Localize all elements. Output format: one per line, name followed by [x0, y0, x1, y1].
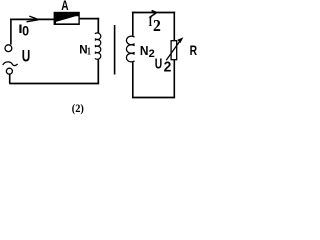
wire right vertical upper (primary side)	[97, 18, 99, 34]
svg-text:2: 2	[149, 48, 155, 60]
AC source tilde	[3, 62, 18, 66]
wire bottom (primary loop)	[9, 83, 99, 85]
wire right vertical lower (secondary)	[173, 60, 175, 98]
wire right vertical lower (primary side)	[97, 59, 99, 83]
svg-text:U: U	[22, 48, 31, 66]
svg-text:I: I	[18, 22, 22, 35]
wire top (secondary loop)	[132, 12, 175, 14]
resistor R box	[171, 41, 177, 60]
svg-text:U: U	[155, 56, 162, 72]
svg-text:R: R	[190, 43, 198, 59]
svg-text:N: N	[79, 42, 87, 56]
wire top left horizontal (primary loop)	[10, 18, 54, 20]
terminal lower circle	[6, 68, 12, 74]
wire bottom (secondary loop)	[132, 97, 175, 99]
wire left vertical lower (secondary)	[132, 62, 134, 97]
svg-text:A: A	[61, 0, 68, 13]
svg-text:2: 2	[153, 18, 161, 35]
svg-text:1: 1	[87, 45, 91, 56]
wire below lower terminal	[9, 74, 11, 84]
ammeter A (black box with white wedge)	[54, 12, 80, 25]
wire right vertical upper (secondary)	[173, 12, 175, 41]
wire top right of ammeter	[80, 18, 100, 20]
wire left vertical upper (secondary)	[132, 12, 134, 36]
resistor arrow (variable)	[166, 41, 180, 60]
resistor arrow head	[177, 37, 183, 43]
arrow I2 tip	[154, 11, 158, 15]
svg-text:I: I	[149, 16, 153, 29]
primary winding N1 (4 turns)	[95, 33, 101, 59]
svg-text:2: 2	[164, 59, 172, 75]
arrow I0 current direction	[27, 16, 39, 22]
transformer core	[114, 25, 116, 75]
terminal upper circle	[5, 45, 12, 52]
arrow I2 current direction	[150, 11, 157, 18]
svg-text:0: 0	[22, 23, 29, 39]
svg-text:(2): (2)	[72, 103, 84, 116]
wire left vertical (primary loop)	[10, 19, 12, 45]
svg-text:N: N	[140, 44, 149, 59]
secondary winding N2 (3 turns)	[126, 36, 134, 62]
